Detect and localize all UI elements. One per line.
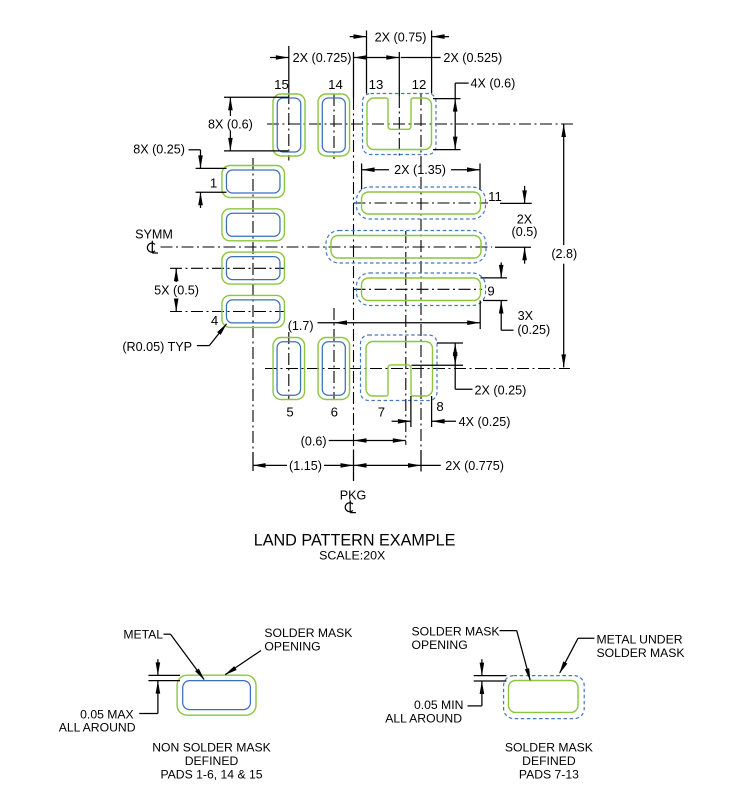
svg-text:2X (0.25): 2X (0.25) <box>475 384 527 398</box>
pad 2 (NSMD, solder-mask opening + metal) <box>222 209 285 241</box>
svg-text:(0.6): (0.6) <box>301 434 327 448</box>
extension line top of pad 1 metal <box>196 167 227 169</box>
extension line top of pad 15 <box>224 96 289 98</box>
extension line bottom of pads 13/12 <box>433 149 461 151</box>
svg-text:OPENING: OPENING <box>264 639 320 653</box>
pad number 11 <box>488 189 502 204</box>
extension line top of pads 13/12 <box>433 98 461 100</box>
horizontal centerline of top pads <box>267 123 573 125</box>
SYMM centerline symbol <box>147 241 158 253</box>
svg-text:11: 11 <box>488 189 502 204</box>
extension line top of pad 9 <box>481 277 508 279</box>
svg-text:6: 6 <box>331 405 338 420</box>
caption SOLDER MASK DEFINED <box>505 740 593 781</box>
dimension 0.05 MAX ALL AROUND <box>59 659 160 734</box>
dimension 2X (0.5) <box>512 186 538 264</box>
svg-text:DEFINED: DEFINED <box>522 754 576 768</box>
dimension 5X (0.5) <box>154 268 199 311</box>
svg-text:8X (0.25): 8X (0.25) <box>133 143 185 157</box>
svg-text:2X (0.75): 2X (0.75) <box>375 31 427 45</box>
dimension 0.05 MIN ALL AROUND <box>385 659 484 725</box>
svg-text:METAL UNDER: METAL UNDER <box>597 632 683 646</box>
svg-text:PKG: PKG <box>340 489 367 503</box>
dimension 2X (0.25) <box>453 343 526 398</box>
svg-text:2X (0.725): 2X (0.725) <box>293 51 352 65</box>
extension line slot right wall pads 7/8 <box>410 396 412 427</box>
vertical centerline of thermal pad <box>405 231 407 445</box>
extension line right edge pads 7/8 <box>431 396 433 427</box>
svg-text:3X: 3X <box>518 309 534 323</box>
vertical centerline of pads 14 and 6 <box>333 94 335 400</box>
dimension 3X (0.25) <box>499 262 550 337</box>
pad 9 (SMD) <box>357 273 486 306</box>
pad number 12 <box>412 77 427 92</box>
svg-text:SOLDER MASK: SOLDER MASK <box>597 646 685 660</box>
svg-text:13: 13 <box>369 77 384 92</box>
svg-text:2X (0.525): 2X (0.525) <box>443 51 502 65</box>
svg-text:DEFINED: DEFINED <box>185 754 239 768</box>
pad 6 (NSMD) <box>318 338 350 400</box>
extension line right edge pad 11 <box>479 164 481 190</box>
extension line bottom of pad 9 <box>483 300 507 302</box>
dimension 2X (0.725) <box>270 51 367 65</box>
extension line NSMD mask top <box>148 674 180 676</box>
pad number 5 <box>286 405 293 420</box>
extension line left edge pad 11 <box>361 164 363 190</box>
svg-text:4X (0.6): 4X (0.6) <box>471 77 516 91</box>
dimension 4X (0.6) <box>453 77 515 150</box>
dimension 4X (0.25) <box>392 415 511 429</box>
PKG vertical centerline <box>353 52 355 481</box>
subtitle SCALE:20X <box>319 549 385 563</box>
pad number 15 <box>274 77 289 92</box>
dimension 2X (0.525) <box>367 51 503 65</box>
vertical centerline of pads 15 and 5 <box>288 46 290 400</box>
pad number 8 <box>436 399 443 414</box>
svg-text:(2.8): (2.8) <box>551 247 577 261</box>
svg-text:8X (0.6): 8X (0.6) <box>208 118 253 132</box>
title LAND PATTERN EXAMPLE <box>254 532 456 550</box>
svg-text:ALL AROUND: ALL AROUND <box>59 721 136 735</box>
vertical centerline of pads 1-4 <box>252 158 254 471</box>
extension line top of pads 7/8 <box>437 342 463 344</box>
svg-text:15: 15 <box>274 77 289 92</box>
svg-text:(1.7): (1.7) <box>288 319 314 333</box>
SOLDER MASK OPENING label with leader (left detail) <box>225 626 353 675</box>
PKG label <box>340 489 367 503</box>
dimension 2X (0.775) <box>354 459 505 473</box>
pad 3 (NSMD, solder-mask opening + metal) <box>222 252 285 284</box>
pad number 6 <box>331 405 338 420</box>
dimension (0.6) <box>301 434 406 448</box>
svg-text:SYMM: SYMM <box>135 228 173 242</box>
svg-text:SCALE:20X: SCALE:20X <box>319 549 385 563</box>
dimension 8X (0.25) <box>133 143 203 209</box>
PKG centerline symbol <box>345 500 356 512</box>
svg-text:5: 5 <box>286 405 293 420</box>
pad number 4 <box>211 313 218 328</box>
extension line left edge pads 13/12 <box>366 31 368 94</box>
extension line SMD metal top <box>474 675 507 677</box>
thermal pad (SMD, on SYMM line) <box>326 231 486 264</box>
SYMM label <box>135 228 173 242</box>
svg-text:SOLDER MASK: SOLDER MASK <box>505 740 593 754</box>
svg-text:2X (0.775): 2X (0.775) <box>445 459 504 473</box>
extension line NSMD metal top <box>148 680 180 682</box>
svg-text:4X (0.25): 4X (0.25) <box>459 415 511 429</box>
pad 5 (NSMD) <box>273 338 305 400</box>
METAL label with leader <box>123 627 204 680</box>
horizontal centerline of pad 11 <box>354 202 489 204</box>
dimension 2X (0.75) <box>350 31 449 45</box>
dimension (2.8) <box>551 124 577 367</box>
NSMD detail pad (solder mask opening + metal) <box>177 675 256 715</box>
svg-text:12: 12 <box>412 77 427 92</box>
extension line right edge pad 9 <box>479 301 481 330</box>
dimension 8X (0.6) <box>208 97 253 151</box>
extension line SMD mask top <box>474 680 507 682</box>
svg-text:14: 14 <box>328 77 343 92</box>
pad number 1 <box>210 176 217 191</box>
pad number 7 <box>378 405 385 420</box>
extension line bottom of pad 15 <box>224 150 288 152</box>
svg-text:8: 8 <box>436 399 443 414</box>
dimension 2X (1.35) <box>362 163 480 177</box>
pad 14 (NSMD) <box>318 94 350 156</box>
horizontal centerline of bottom pads <box>265 368 570 370</box>
svg-text:(0.25): (0.25) <box>517 323 550 337</box>
pad number 9 <box>487 284 494 299</box>
dimension (1.7) <box>288 319 480 333</box>
svg-text:PADS 1-6, 14 & 15: PADS 1-6, 14 & 15 <box>160 768 262 782</box>
SMD detail pad (metal under mask dashed + mask opening) <box>504 676 585 719</box>
svg-text:LAND PATTERN EXAMPLE: LAND PATTERN EXAMPLE <box>254 532 456 550</box>
label (R0.05) TYP with leader <box>122 323 227 354</box>
svg-text:1: 1 <box>210 176 217 191</box>
METAL UNDER SOLDER MASK label with leader <box>559 632 684 674</box>
caption NON SOLDER MASK DEFINED <box>152 741 271 782</box>
svg-text:NON SOLDER MASK: NON SOLDER MASK <box>152 741 271 755</box>
pad 4 (NSMD, solder-mask opening + metal) <box>222 295 285 327</box>
svg-text:9: 9 <box>487 284 494 299</box>
extension line SYMM at right <box>495 246 531 248</box>
horizontal centerline of pad 9 <box>354 288 483 290</box>
svg-text:PADS 7-13: PADS 7-13 <box>519 767 579 781</box>
pad 15 (NSMD) <box>273 94 305 156</box>
svg-text:(1.15): (1.15) <box>289 459 322 473</box>
vertical centerline of pads 12/11/9/8 <box>420 93 422 472</box>
svg-text:(R0.05) TYP: (R0.05) TYP <box>122 340 192 354</box>
svg-text:0.05 MAX: 0.05 MAX <box>80 708 134 722</box>
pad number 14 <box>328 77 343 92</box>
svg-text:METAL: METAL <box>123 627 163 641</box>
SOLDER MASK OPENING label with leader (right detail) <box>412 624 531 681</box>
svg-text:7: 7 <box>378 405 385 420</box>
pads 13/12 (SMD, metal under mask dashed + mask opening U-shape) <box>363 94 437 155</box>
svg-text:OPENING: OPENING <box>412 638 468 652</box>
svg-text:4: 4 <box>211 313 218 328</box>
pad 11 (SMD) <box>357 187 486 219</box>
svg-text:0.05 MIN: 0.05 MIN <box>414 698 463 712</box>
svg-text:SOLDER MASK: SOLDER MASK <box>412 624 500 638</box>
svg-text:SOLDER MASK: SOLDER MASK <box>264 626 352 640</box>
extension line pad 11 centerline <box>500 202 532 204</box>
pad number 13 <box>369 77 384 92</box>
horizontal centerline of pad 4 <box>170 311 284 313</box>
pads 7/8 (SMD, metal under mask dashed + mask opening shape) <box>361 335 438 401</box>
vertical centerline of slot in pads 13/12 <box>398 52 400 157</box>
horizontal centerline of pad 3 <box>170 267 284 269</box>
svg-text:(0.5): (0.5) <box>512 225 538 239</box>
extension line bottom of pad 1 metal <box>196 191 227 193</box>
svg-text:ALL AROUND: ALL AROUND <box>385 711 462 725</box>
SYMM horizontal centerline <box>161 246 493 248</box>
extension line right edge pads 13/12 <box>431 31 433 94</box>
svg-text:2X (1.35): 2X (1.35) <box>394 163 446 177</box>
pad 1 (NSMD, solder-mask opening + metal) <box>222 166 285 198</box>
extension line slot top edge of pads 7/8 <box>412 364 464 366</box>
svg-text:5X (0.5): 5X (0.5) <box>154 284 199 298</box>
dimension (1.15) <box>253 459 354 473</box>
